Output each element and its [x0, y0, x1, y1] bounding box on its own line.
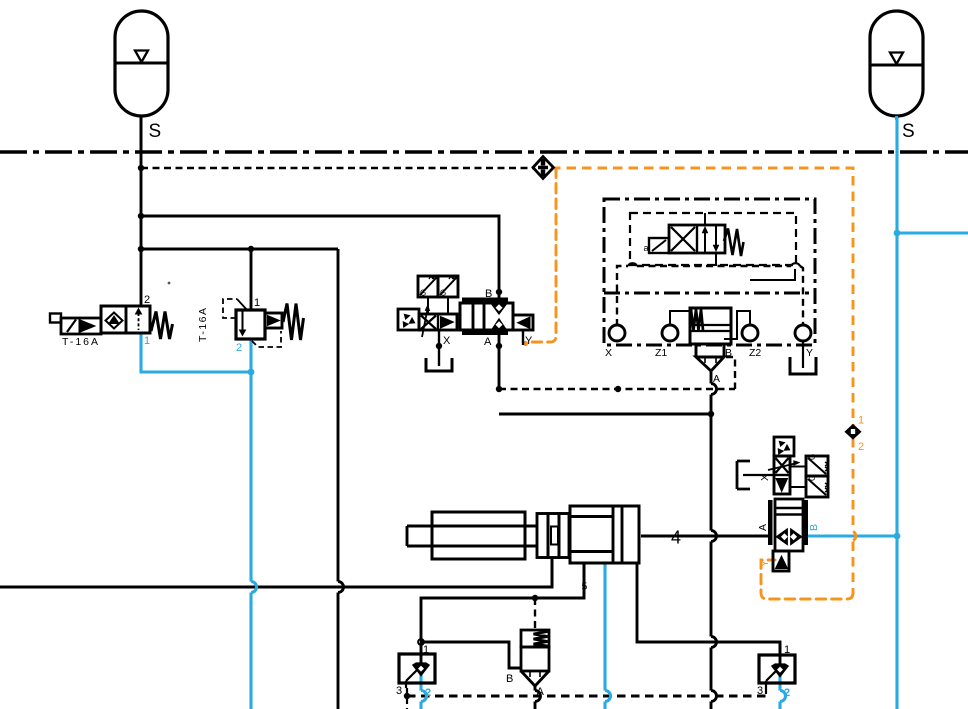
svg-text:1: 1 — [254, 297, 260, 309]
svg-text:T-16A: T-16A — [197, 306, 209, 342]
svg-text:2: 2 — [236, 342, 242, 354]
svg-text:T-16A: T-16A — [62, 336, 100, 348]
svg-text:2: 2 — [425, 687, 431, 699]
svg-text:2: 2 — [784, 687, 790, 699]
svg-text:Y: Y — [806, 347, 813, 359]
svg-text:a: a — [644, 243, 649, 253]
svg-text:B: B — [506, 673, 513, 685]
svg-text:X: X — [605, 347, 612, 359]
svg-text:B: B — [485, 288, 492, 300]
svg-text:A: A — [757, 524, 769, 531]
svg-text:G: G — [440, 289, 446, 298]
svg-text:3: 3 — [757, 685, 763, 697]
svg-text:1: 1 — [858, 415, 864, 427]
svg-text:2: 2 — [858, 441, 864, 453]
svg-text:Y: Y — [759, 560, 771, 567]
svg-text:B: B — [808, 524, 820, 531]
svg-text:G: G — [808, 454, 817, 460]
svg-text:A: A — [484, 336, 492, 348]
svg-text:S: S — [149, 121, 162, 142]
svg-text:G: G — [808, 475, 817, 481]
svg-text:3: 3 — [396, 685, 402, 697]
svg-text:2: 2 — [144, 294, 150, 306]
svg-text:B: B — [725, 347, 732, 359]
svg-text:1: 1 — [423, 644, 429, 656]
svg-text:Z1: Z1 — [655, 347, 667, 359]
svg-text:S: S — [902, 121, 915, 142]
svg-text:X: X — [759, 474, 771, 481]
svg-text:1: 1 — [784, 644, 790, 656]
svg-text:A: A — [537, 686, 545, 698]
svg-text:A: A — [713, 373, 720, 385]
svg-text:X: X — [443, 335, 451, 347]
svg-text:4: 4 — [671, 528, 681, 548]
svg-text:1: 1 — [144, 335, 150, 347]
svg-text:G: G — [420, 289, 426, 298]
svg-text:Z2: Z2 — [749, 347, 761, 359]
svg-text:Y: Y — [525, 335, 533, 347]
svg-text:5: 5 — [582, 581, 588, 593]
